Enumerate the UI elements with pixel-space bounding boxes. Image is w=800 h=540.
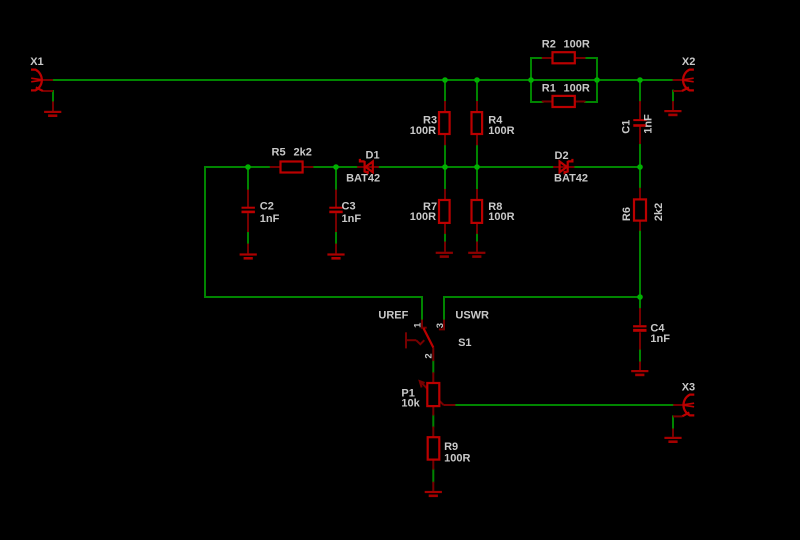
pin: R5 left <box>270 166 281 168</box>
pin: R2 right <box>575 57 586 59</box>
wire: R4 column bottom to mid net <box>476 145 478 167</box>
ground under C2 <box>240 253 257 259</box>
resistor R6 body <box>634 199 646 220</box>
svg-text:X1: X1 <box>30 56 43 68</box>
pin: D2 through line <box>553 166 574 168</box>
capacitor C2 plates <box>242 207 255 214</box>
pin: R9 top <box>432 427 434 438</box>
svg-text:10k: 10k <box>401 398 420 410</box>
wire: left vertical from mid net down <box>204 167 206 297</box>
wire: R1 bottom branch right segment <box>585 101 597 103</box>
wire: switch pin2 to P1 green <box>432 361 434 372</box>
wire: main top net from X1 to X2 <box>53 79 673 81</box>
svg-text:C3: C3 <box>342 201 356 213</box>
ground under C3 <box>327 253 344 259</box>
pin: D1 through line <box>357 166 379 168</box>
wire: R7 top green <box>444 167 446 189</box>
pin: X1 shield horizontal <box>43 90 53 92</box>
ground under X3 <box>664 437 681 443</box>
pin: R7 top <box>444 189 446 200</box>
pin: C2 top <box>247 190 249 207</box>
svg-text:100R: 100R <box>564 83 590 95</box>
wire: R3 column bottom to mid net <box>444 145 446 167</box>
pin: R1 left <box>542 101 553 103</box>
wire: USWR bottom horizontal <box>444 296 640 298</box>
diode D1 body (schottky, pointing left) <box>360 159 373 174</box>
pin: C3 bottom <box>335 213 337 232</box>
svg-text:UREF: UREF <box>378 310 408 322</box>
svg-text:1: 1 <box>413 322 424 328</box>
pin: C1 bottom <box>639 127 641 144</box>
pin: C2 ground pin <box>247 244 249 254</box>
pin: R8 bottom <box>476 223 478 234</box>
pin: C4 top <box>639 308 641 325</box>
wire: P1 wiper to X3 <box>455 404 673 406</box>
svg-text:BAT42: BAT42 <box>346 173 380 185</box>
pin: C1 top <box>639 101 641 119</box>
wire: C2 bottom green <box>247 232 249 244</box>
PINS <box>41 58 684 491</box>
resistor R2 body <box>553 52 575 63</box>
node: junction R4R8 / mid net <box>474 164 480 170</box>
wire: X3 shield drop green <box>672 416 674 428</box>
capacitor C3 plates <box>329 207 342 214</box>
switch S1 lever <box>424 328 434 347</box>
resistor R1 body <box>553 96 575 107</box>
ground under R9 <box>425 491 442 497</box>
svg-text:1nF: 1nF <box>650 333 670 345</box>
capacitor C1 plates <box>633 119 646 127</box>
resistor R8 body <box>472 200 483 223</box>
node: junction R1R2 left <box>528 77 534 83</box>
pin: S1 pin 3 with bend <box>439 320 444 330</box>
capacitor C4 plates <box>633 325 646 332</box>
wire: C4 top green <box>639 297 641 308</box>
potentiometer P1 body <box>427 383 439 406</box>
wire: R1/R2 right vertical branch <box>596 58 598 102</box>
svg-text:1nF: 1nF <box>643 114 655 134</box>
ground under C4 <box>631 370 648 376</box>
wire: R4 column top <box>476 80 478 102</box>
svg-text:100R: 100R <box>410 211 436 223</box>
pin: S1 actuator dash <box>407 339 416 341</box>
pin: R6 top <box>639 188 641 200</box>
wire: R7 bottom green <box>444 234 446 242</box>
pin: X1 ground pin <box>52 101 54 111</box>
svg-text:100R: 100R <box>410 125 436 137</box>
pin: R4 top <box>476 101 478 112</box>
wire: R2 top branch left segment <box>531 57 543 59</box>
svg-text:D1: D1 <box>366 149 380 161</box>
wire: R2 top branch right segment <box>585 57 597 59</box>
svg-text:R6: R6 <box>621 207 633 221</box>
wire: P1 to R9 green <box>432 416 434 427</box>
svg-text:100R: 100R <box>488 125 514 137</box>
ground under X2 <box>664 110 681 116</box>
pin: P1 wiper diagonal <box>420 381 444 405</box>
wire: R6 top green <box>639 167 641 188</box>
pin: R8 top <box>476 189 478 200</box>
svg-text:1nF: 1nF <box>342 213 362 225</box>
svg-text:R9: R9 <box>444 441 458 453</box>
connector X3 (BNC, opening right) <box>682 395 694 417</box>
pin: R3 bottom <box>444 134 446 145</box>
pin: C4 bottom <box>639 332 641 349</box>
pin: C3 ground pin <box>335 244 337 254</box>
wire: USWR drop to switch pin 3 <box>443 297 445 320</box>
svg-text:R2: R2 <box>542 39 556 51</box>
wire: UREF bottom horizontal <box>205 296 422 298</box>
wire: R8 bottom green <box>476 234 478 242</box>
node: junction R3 / top net <box>442 77 448 83</box>
resistor R3 body <box>439 112 450 134</box>
svg-text:USWR: USWR <box>455 310 489 322</box>
pin: X3 ground pin <box>672 429 674 437</box>
pin: R7 bottom <box>444 223 446 234</box>
pin: R9 ground pin <box>432 482 434 491</box>
wire: UREF drop to switch pin 1 <box>421 297 423 320</box>
svg-text:2k2: 2k2 <box>653 203 665 221</box>
node: junction R6 C4 / USWR net <box>637 294 643 300</box>
pin: X3 center pin <box>673 404 684 406</box>
pin: X2 center pin <box>673 79 684 81</box>
svg-text:100R: 100R <box>488 211 514 223</box>
svg-text:X3: X3 <box>682 381 695 393</box>
wire: X1 shield drop green <box>52 91 54 101</box>
node: junction C1 / top net <box>637 77 643 83</box>
resistor R9 body <box>428 437 440 459</box>
diode D2 body (schottky, pointing right) <box>560 159 573 174</box>
wire: R8 top green <box>476 167 478 189</box>
wire: middle horizontal net <box>205 166 640 168</box>
pin: R1 right <box>575 101 586 103</box>
wire: C3 bottom green <box>335 232 337 244</box>
svg-text:C2: C2 <box>260 201 274 213</box>
pin: R6 bottom <box>639 221 641 231</box>
connector X1 (BNC, opening left) <box>31 70 43 91</box>
svg-text:S1: S1 <box>458 337 471 349</box>
svg-text:2k2: 2k2 <box>294 147 312 159</box>
svg-text:BAT42: BAT42 <box>554 172 588 184</box>
svg-text:1nF: 1nF <box>260 213 280 225</box>
ground under R7 <box>436 252 453 258</box>
wire: C4 bottom green <box>639 350 641 362</box>
pin: C4 ground pin <box>639 362 641 371</box>
JUNCTIONS <box>245 77 643 300</box>
wire: R9 to ground green <box>432 470 434 482</box>
node: junction R1R2 right <box>594 77 600 83</box>
wire: R3 column top <box>444 80 446 102</box>
svg-text:R5: R5 <box>272 147 286 159</box>
wire: R6 bottom green to USWR net <box>639 231 641 297</box>
svg-text:R1: R1 <box>542 83 556 95</box>
pin: C2 bottom <box>247 213 249 232</box>
wire: C1 column lower green <box>639 144 641 167</box>
pin: P1 wiper horizontal <box>444 404 456 406</box>
svg-text:C1: C1 <box>621 120 633 134</box>
ground under R8 <box>468 252 485 258</box>
svg-text:2: 2 <box>424 353 435 358</box>
resistor R4 body <box>472 112 483 134</box>
resistor R7 body <box>439 200 450 223</box>
node: junction R6 / mid net <box>637 164 643 170</box>
wire: R1/R2 left vertical branch <box>530 58 532 102</box>
pin: S1 actuator spring zigzag <box>416 340 424 344</box>
svg-text:100R: 100R <box>564 39 590 51</box>
pin: X1 center pin <box>41 79 53 81</box>
wire: R1 bottom branch left segment <box>531 101 543 103</box>
connector X2 (BNC, opening right) <box>682 70 694 91</box>
pin: R5 right <box>303 166 314 168</box>
pin: X3 shield horizontal <box>673 415 682 417</box>
pin: R2 left <box>542 57 553 59</box>
pin: P1 bottom <box>432 406 434 415</box>
svg-text:100R: 100R <box>444 453 470 465</box>
pin: C3 top <box>335 190 337 207</box>
ground under X1 <box>44 111 61 117</box>
wire: C2 top green <box>247 167 249 190</box>
node: junction R3R7 / mid net <box>442 164 448 170</box>
wire: X2 shield drop green <box>672 91 674 102</box>
svg-text:D2: D2 <box>555 150 569 162</box>
pin: R7 ground pin <box>444 242 446 252</box>
wire: C1 column upper green <box>639 80 641 101</box>
svg-text:X2: X2 <box>682 56 695 68</box>
pin: R9 bottom <box>432 460 434 470</box>
pin: S1 pin 2 <box>432 348 434 362</box>
node: junction R4 / top net <box>474 77 480 83</box>
resistor R5 body <box>281 162 303 173</box>
wire: C3 top green <box>335 167 337 190</box>
svg-text:3: 3 <box>435 323 446 328</box>
pin: S1 pin 1 <box>421 320 423 328</box>
pin: R3 top <box>444 101 446 112</box>
pin: R4 bottom <box>476 134 478 145</box>
pin: X2 shield horizontal <box>673 90 682 92</box>
node: junction C2 / mid net <box>245 164 251 170</box>
pin: S1 pin 1 contact tick <box>421 327 427 329</box>
pin: X2 ground pin <box>672 101 674 110</box>
pin: S1 actuator bar <box>405 332 407 348</box>
pin: R8 ground pin <box>476 242 478 252</box>
pin: P1 wiper arrowhead <box>420 381 425 387</box>
pin: P1 top <box>432 372 434 383</box>
node: junction C3 / mid net <box>333 164 339 170</box>
